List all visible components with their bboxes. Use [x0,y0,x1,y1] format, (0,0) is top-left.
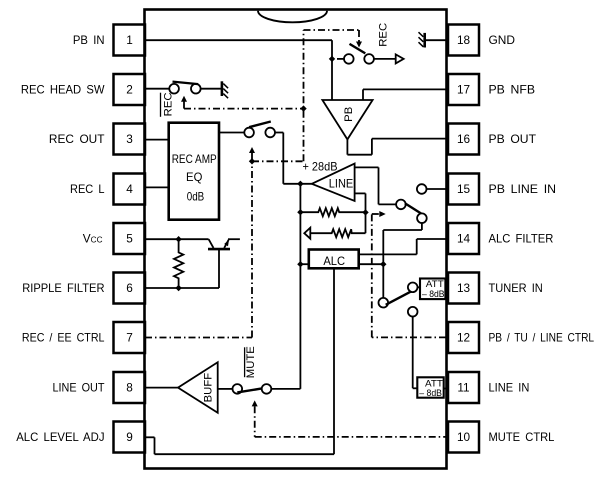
svg-text:PB NFB: PB NFB [489,83,536,97]
wire S6 to LINE node [271,388,300,390]
svg-text:REC OUT: REC OUT [49,132,105,146]
wire ALC left stub [300,263,308,265]
wire S4 to selector2 [383,223,422,298]
wire pin5 Vcc rail [145,238,240,240]
svg-text:17: 17 [457,83,470,97]
svg-text:PB LINE IN: PB LINE IN [489,182,557,196]
wire S3 output to LINE node [275,133,312,184]
pin 8 box [114,372,146,403]
switch S2 head contact left [169,84,179,94]
svg-text:REC HEAD SW: REC HEAD SW [21,83,105,97]
wire pin15 [427,188,449,190]
svg-text:MUTE CTRL: MUTE CTRL [489,430,555,444]
svg-text:BUFF: BUFF [202,373,214,403]
node R1 right [362,209,368,215]
control arrow onto S2 lever [181,96,187,109]
IC body [145,10,447,469]
svg-text:2: 2 [126,83,133,97]
switch S4 lever [405,203,422,214]
pin 11 box [448,372,479,403]
svg-text:VCC: VCC [83,232,103,246]
svg-text:1: 1 [126,33,133,47]
svg-text:ATT: ATT [426,279,445,289]
REC AMP block [169,123,219,220]
pin 2 box [114,74,146,105]
resistor ripple (vertical) [174,239,183,288]
svg-text:TUNER IN: TUNER IN [489,281,543,295]
pin 18 box [448,25,479,56]
wire S1 output [374,58,396,60]
pin15 contact circle [417,184,427,194]
wire ALC right to node [359,263,384,265]
transistor Q1 ripple filter [208,239,230,249]
wire pin4 to REC AMP [145,186,169,188]
node ALC right [380,261,386,267]
pin 5 box [114,223,146,254]
svg-text:REC: REC [378,23,390,47]
svg-text:REC: REC [163,92,175,116]
pin 10 box [448,422,479,453]
node ALC left [297,261,303,267]
svg-text:MUTE: MUTE [245,346,257,378]
pin 15 box [448,174,479,205]
svg-text:+ 28dB: + 28dB [303,159,338,173]
wire line contact to ATT2 [413,317,418,389]
pin 9 box [114,422,146,453]
svg-text:– 8dB: – 8dB [422,289,445,299]
switch S4 lower contact [417,213,427,223]
pin 3 box [114,124,146,155]
ALC block [309,250,359,269]
wire PB out to pin16 [347,139,446,155]
wire pin8 to BUFF [145,387,178,389]
svg-text:PB / TU / LINE CTRL: PB / TU / LINE CTRL [489,331,595,345]
switch S5 lever [386,290,413,304]
control arrow onto S1 lever [356,30,362,48]
svg-text:4: 4 [126,182,133,196]
ground GND at pin 18 [419,32,449,47]
switch S4 selector common [396,200,406,210]
switch S3 rec-out contact right [265,128,275,138]
pin 16 box [448,124,479,155]
pin 6 box [114,273,146,304]
pin 7 box [114,322,146,353]
control dash-dot pin12 [372,211,446,337]
svg-text:ATT: ATT [425,379,444,389]
wire pin9 alc level adj [145,437,334,454]
attenuator ATT2 -8dB [417,377,443,398]
svg-text:LINE IN: LINE IN [489,381,530,395]
wire pin3 to REC AMP [145,139,169,141]
switch S5 line contact [408,307,418,317]
svg-text:LINE: LINE [329,177,354,191]
svg-text:LINE OUT: LINE OUT [53,381,105,395]
wire S1 input stub [337,58,344,60]
pin 1 box [114,25,146,56]
node Vcc/resistor [175,236,181,242]
svg-text:9: 9 [126,430,133,444]
node resistor/pin6 [175,285,181,291]
svg-text:18: 18 [457,33,471,47]
arrow out (open) [396,54,404,63]
control arrow onto S3 [249,147,255,161]
attenuator ATT1 -8dB [420,279,445,300]
PB amp U1 [322,100,372,139]
resistor R2 alc-controlled [304,228,365,239]
svg-text:13: 13 [457,281,471,295]
node dash-dot junction [300,105,306,111]
pin 14 box [448,223,479,254]
switch S6 mute contact right [262,384,272,394]
svg-text:PB OUT: PB OUT [489,132,537,146]
switch S1 REC contact left [344,54,354,64]
svg-text:REC L: REC L [70,182,105,196]
node junction pin1/S1 [329,56,335,62]
control dash-dot pin10 mute [255,436,448,438]
switch S1 lever [350,44,366,54]
svg-text:EQ: EQ [186,170,202,184]
wire LINE in from selector [355,167,396,204]
svg-text:16: 16 [457,132,471,146]
svg-text:3: 3 [126,132,133,146]
svg-text:15: 15 [457,182,471,196]
control dash-dot REC/EE from pin7 [145,30,359,338]
switch S6 lever [237,389,261,393]
svg-text:ALC LEVEL ADJ: ALC LEVEL ADJ [16,430,104,444]
svg-text:ALC FILTER: ALC FILTER [489,232,554,246]
svg-text:PB IN: PB IN [73,33,105,47]
wire ATT1 to pin13 [445,287,448,289]
wire pin6 ripple filter [145,250,219,288]
control arrow onto S6 [252,400,258,437]
svg-text:8: 8 [126,381,133,395]
op-amp LINE [312,164,355,201]
resistor R1 feedback [300,208,365,216]
switch S3 rec-out contact left [244,128,254,138]
wire LINE out node vertical [299,184,301,389]
wire S5 to ATT1 [418,286,421,288]
svg-text:5: 5 [126,232,133,246]
svg-text:ALC: ALC [323,254,345,268]
switch S2 lever [173,82,199,85]
wire ATT2 to pin11 [444,388,448,390]
pin 13 box [448,273,479,304]
label MUTE (rotated, overline) [245,346,258,378]
control dash-dot pin2 branch [184,108,304,110]
wire S2 to ground [201,88,221,90]
svg-text:RIPPLE FILTER: RIPPLE FILTER [22,281,104,295]
switch S3 lever [249,122,271,128]
wire REC AMP out to S3 [219,132,244,134]
switch S6 mute contact left [233,384,243,394]
label REC (rotated, overline) head switch [161,92,175,116]
notch [258,11,327,23]
buffer amp BUFF [178,362,218,412]
wire BUFF in from mute switch [218,388,233,390]
svg-text:0dB: 0dB [187,190,205,204]
wire ALC bottom to pin9 line [333,268,335,454]
pin 12 box [448,322,479,353]
svg-text:10: 10 [457,430,471,444]
ground at head switch [222,81,228,98]
svg-text:14: 14 [457,232,471,246]
svg-text:– 8dB: – 8dB [419,388,442,398]
switch S5 selector2 common [379,298,389,308]
svg-text:12: 12 [457,331,470,345]
wire pin2 to head switch [145,88,169,90]
wire LINE fb stub [355,193,366,233]
wire pin17 NFB to PB [363,89,446,100]
svg-text:PB: PB [343,107,355,122]
switch S2 head contact right [191,84,201,94]
svg-text:6: 6 [126,281,133,295]
switch S1 REC contact right [364,54,374,64]
node R1 left [297,209,303,215]
svg-text:REC AMP: REC AMP [172,152,217,166]
wire pin1 to switch S1 [145,40,332,100]
switch S5 tuner contact [408,283,418,293]
node dash-dot junction at S3 arrow [249,158,255,164]
svg-text:7: 7 [126,331,133,345]
svg-text:GND: GND [489,33,516,47]
pin 17 box [448,74,479,105]
pin 4 box [114,174,146,205]
node LINE apex [297,181,303,187]
wire pin14 to ALC [359,239,446,254]
svg-text:11: 11 [457,381,469,395]
svg-text:REC / EE CTRL: REC / EE CTRL [22,331,105,345]
